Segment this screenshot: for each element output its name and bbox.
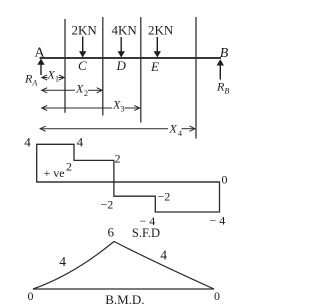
- svg-text:3: 3: [121, 105, 125, 114]
- svg-text:A: A: [35, 45, 46, 60]
- load arrow 4KN at D: [118, 37, 124, 57]
- svg-text:2KN: 2KN: [148, 22, 174, 37]
- svg-text:−2: −2: [101, 198, 114, 212]
- svg-text:2KN: 2KN: [72, 22, 98, 37]
- section line D: [102, 17, 104, 116]
- load arrow 2KN at E: [155, 37, 161, 57]
- svg-text:E: E: [150, 59, 159, 74]
- svg-text:0: 0: [28, 289, 34, 303]
- BMD curve: [33, 242, 214, 290]
- SFD zero baseline: [37, 181, 220, 183]
- svg-text:4: 4: [24, 135, 31, 150]
- SFD outline: [37, 144, 220, 212]
- svg-text:2: 2: [84, 89, 88, 98]
- reaction arrow RA: [38, 60, 44, 76]
- beam AB: [40, 57, 222, 59]
- svg-text:4KN: 4KN: [112, 22, 138, 37]
- svg-text:S.F.D: S.F.D: [132, 226, 160, 240]
- reaction arrow RB: [218, 60, 224, 79]
- section line E: [140, 17, 142, 123]
- svg-text:0: 0: [222, 173, 228, 187]
- svg-text:1: 1: [55, 75, 59, 84]
- BMD baseline: [33, 288, 214, 290]
- svg-text:B: B: [220, 46, 229, 61]
- svg-text:B.M.D.: B.M.D.: [105, 292, 144, 307]
- svg-text:4: 4: [178, 129, 182, 138]
- section line C: [64, 19, 66, 113]
- svg-text:C: C: [78, 58, 87, 73]
- svg-text:X: X: [169, 122, 178, 136]
- svg-text:4: 4: [160, 248, 167, 263]
- svg-text:− 4: − 4: [210, 214, 226, 228]
- svg-text:D: D: [116, 58, 127, 73]
- svg-text:X: X: [75, 82, 84, 96]
- svg-text:0: 0: [214, 289, 220, 303]
- svg-text:−2: −2: [158, 190, 171, 204]
- svg-text:6: 6: [108, 225, 115, 240]
- load arrow 2KN at C: [80, 37, 86, 57]
- svg-text:+ ve: + ve: [44, 166, 65, 180]
- dimension X3: [42, 105, 140, 110]
- svg-text:4: 4: [77, 135, 84, 150]
- section line B: [195, 17, 197, 139]
- dimension X4: [40, 126, 195, 131]
- svg-text:4: 4: [59, 254, 66, 269]
- dimension X1: [42, 75, 65, 80]
- svg-text:2: 2: [66, 159, 72, 173]
- dimension X2: [42, 88, 102, 93]
- svg-text:2: 2: [115, 151, 121, 165]
